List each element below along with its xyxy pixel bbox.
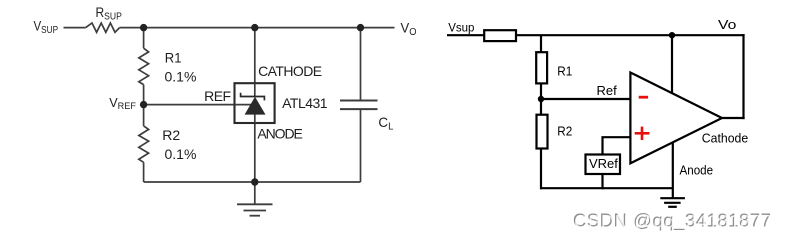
svg-text:Ref: Ref — [597, 83, 618, 98]
svg-text:CL: CL — [378, 114, 393, 133]
wire anode drop — [672, 142, 674, 198]
resistor supply box (right) — [484, 30, 516, 41]
svg-text:R1: R1 — [557, 63, 572, 78]
svg-text:Anode: Anode — [680, 164, 714, 178]
label plus input — [635, 127, 650, 140]
svg-text:ANODE: ANODE — [257, 125, 302, 141]
svg-text:R2: R2 — [557, 123, 572, 138]
svg-text:CSDN @qq_34181877: CSDN @qq_34181877 — [574, 211, 772, 233]
svg-text:VSUP: VSUP — [34, 17, 59, 36]
wire bottom rail (right) — [540, 187, 673, 189]
wire CL bottom — [360, 109, 362, 182]
wire R2 to bottom rail — [143, 162, 145, 182]
capacitor CL — [340, 101, 378, 110]
wire R1 drop — [540, 35, 542, 53]
wire bottom rail — [144, 181, 361, 183]
wire vo drop — [742, 34, 744, 119]
svg-text:RSUP: RSUP — [96, 4, 123, 23]
svg-text:VO: VO — [401, 19, 417, 38]
svg-text:Vsup: Vsup — [448, 22, 474, 34]
wire vref to R2 — [143, 105, 145, 126]
ground (right) — [660, 198, 685, 207]
wire vsup lead — [64, 27, 86, 29]
wire ref to opamp minus — [541, 98, 630, 100]
svg-text:Cathode: Cathode — [702, 132, 748, 146]
svg-text:R2: R2 — [162, 127, 180, 143]
wire vsup lead (right) — [447, 34, 484, 36]
wire cathode vertical — [254, 28, 256, 97]
wire ref — [144, 104, 251, 106]
resistor RSUP — [86, 23, 120, 32]
svg-text:CATHODE: CATHODE — [258, 63, 322, 79]
wire ref inside box — [235, 104, 252, 106]
node top rail junction (right) — [669, 32, 675, 38]
svg-text:VREF: VREF — [109, 95, 136, 112]
svg-text:ATL431: ATL431 — [282, 95, 328, 111]
wire left rail top — [143, 28, 145, 49]
resistor R2 box (right) — [537, 115, 548, 149]
wire vref down to rail — [601, 174, 603, 190]
resistor R2 — [139, 126, 149, 162]
ground (left) — [237, 182, 273, 216]
wire vref up to plus input — [603, 137, 631, 155]
wire R2 to bottom rail — [540, 148, 542, 190]
wire anode inside box — [254, 115, 256, 124]
wire ref node to R2 — [540, 99, 542, 116]
wire R1 to ref node — [540, 83, 542, 99]
svg-text:0.1%: 0.1% — [165, 69, 197, 85]
ATL431 cathode bar with hooks — [241, 93, 265, 101]
ATL431 body box U1 — [235, 83, 275, 123]
svg-text:0.1%: 0.1% — [165, 146, 197, 162]
wire cathode inside box — [254, 83, 256, 97]
svg-text:REF: REF — [204, 88, 231, 104]
node VREF — [140, 101, 147, 108]
node ref junction (right) — [538, 96, 544, 102]
svg-text:Vo: Vo — [718, 18, 736, 32]
VRef source box — [586, 155, 621, 175]
wire top rail (right) — [516, 34, 745, 36]
junction node at R1 top — [140, 24, 147, 31]
junction node anode/ground — [251, 178, 258, 185]
junction node at CL top — [357, 24, 364, 31]
junction node at cathode top — [251, 24, 258, 31]
wire CL top — [360, 28, 362, 101]
ATL431 triangle — [245, 97, 266, 115]
resistor R1 box (right) — [536, 52, 547, 83]
svg-text:VRef: VRef — [589, 156, 618, 171]
op-amp U1 triangle — [630, 73, 722, 164]
wire cathode output — [722, 117, 745, 119]
wire feedback top rail to opamp edge — [671, 35, 673, 93]
watermark CSDN — [573, 210, 772, 233]
svg-text:R1: R1 — [165, 50, 182, 66]
resistor R1 — [139, 48, 149, 84]
label minus input — [639, 96, 648, 99]
wire anode vertical — [254, 115, 256, 183]
wire top rail — [120, 27, 395, 29]
wire R1 to vref node — [143, 85, 145, 105]
